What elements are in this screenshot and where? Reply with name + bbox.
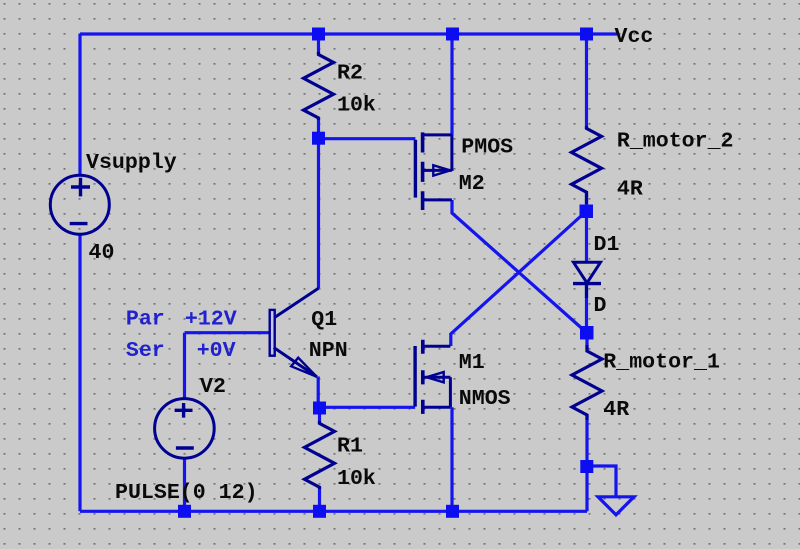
voltage source V2 — [155, 399, 215, 459]
wire M2 source vertical — [450, 34, 453, 135]
resistor R_motor_2 — [572, 126, 602, 204]
wire top rail — [80, 32, 617, 35]
wire D1 anode — [585, 211, 588, 263]
wire M1 drain diagonal — [451, 211, 587, 346]
node junction ground — [580, 460, 593, 473]
node junction R2 bottom — [312, 132, 325, 145]
node junction top M2 — [446, 28, 459, 41]
wire Q1 emitter vertical — [317, 377, 320, 409]
svg-text:NPN: NPN — [309, 339, 348, 363]
node junction right upper — [580, 205, 594, 219]
svg-text:R_motor_2: R_motor_2 — [617, 130, 734, 154]
wire M2 drain diagonal — [452, 200, 587, 333]
wire ground branch — [587, 466, 616, 497]
svg-text:D: D — [594, 294, 607, 318]
svg-text:M2: M2 — [459, 172, 485, 196]
voltage source Vsupply — [50, 175, 109, 234]
wire D1 cathode — [585, 284, 588, 333]
node junction M1 bottom — [446, 505, 459, 518]
svg-text:R1: R1 — [337, 435, 363, 459]
node junction R1 top — [313, 402, 326, 415]
svg-text:PULSE(0 12): PULSE(0 12) — [115, 481, 258, 505]
svg-text:4R: 4R — [617, 178, 643, 202]
resistor R_motor_1 — [572, 345, 602, 420]
wire R2 bottom — [317, 117, 320, 138]
ground — [598, 497, 634, 515]
svg-text:Vcc: Vcc — [615, 25, 654, 49]
wire Q1 collector vertical — [317, 138, 320, 288]
wire M1 source vertical — [450, 407, 453, 511]
wire R2 top — [317, 34, 320, 55]
svg-text:NMOS: NMOS — [459, 387, 511, 411]
wire R2 junction to M2 gate — [319, 137, 416, 140]
transistor M2 — [415, 132, 452, 210]
wire R_motor_1 top — [585, 333, 588, 352]
wire R1 bottom — [318, 487, 321, 512]
svg-text:V2: V2 — [200, 375, 226, 399]
wire V2 top — [183, 333, 186, 399]
svg-text:40: 40 — [89, 241, 115, 265]
svg-text:R_motor_1: R_motor_1 — [603, 351, 720, 375]
resistor R1 — [305, 421, 335, 489]
svg-text:10k: 10k — [337, 467, 376, 491]
transistor M1 — [415, 340, 450, 414]
svg-text:Par: Par — [126, 308, 165, 332]
wire ground column — [585, 467, 588, 512]
resistor R2 — [304, 52, 334, 120]
svg-text:M1: M1 — [459, 351, 485, 375]
svg-text:10k: 10k — [337, 94, 376, 118]
svg-text:R2: R2 — [337, 62, 363, 86]
node junction Vcc — [580, 28, 593, 41]
wire Q1 base — [185, 331, 270, 334]
wire left upper — [78, 34, 81, 176]
svg-text:+12V: +12V — [185, 308, 237, 332]
svg-text:PMOS: PMOS — [461, 135, 513, 159]
wire left lower — [78, 234, 81, 511]
node junction V2 bottom — [178, 505, 191, 518]
svg-text:D1: D1 — [594, 233, 620, 257]
svg-text:Ser: Ser — [126, 339, 165, 363]
node junction right lower — [580, 326, 594, 340]
transistor Q1 — [270, 288, 319, 377]
svg-text:Q1: Q1 — [311, 308, 337, 332]
wire R_motor_2 bottom — [585, 192, 588, 211]
wire bottom rail — [80, 510, 587, 513]
wire Vcc column — [585, 34, 588, 129]
diode D1 — [573, 262, 601, 298]
wire R1 top — [318, 408, 321, 424]
wire R_motor_1 bottom — [585, 415, 588, 467]
svg-text:Vsupply: Vsupply — [86, 151, 177, 175]
wire V2 bottom — [183, 459, 186, 512]
wire R1 junction to M1 gate — [320, 406, 416, 409]
svg-text:4R: 4R — [603, 398, 629, 422]
svg-text:+0V: +0V — [197, 339, 236, 363]
node junction top R2 — [312, 28, 325, 41]
node junction R1 bottom — [313, 505, 326, 518]
